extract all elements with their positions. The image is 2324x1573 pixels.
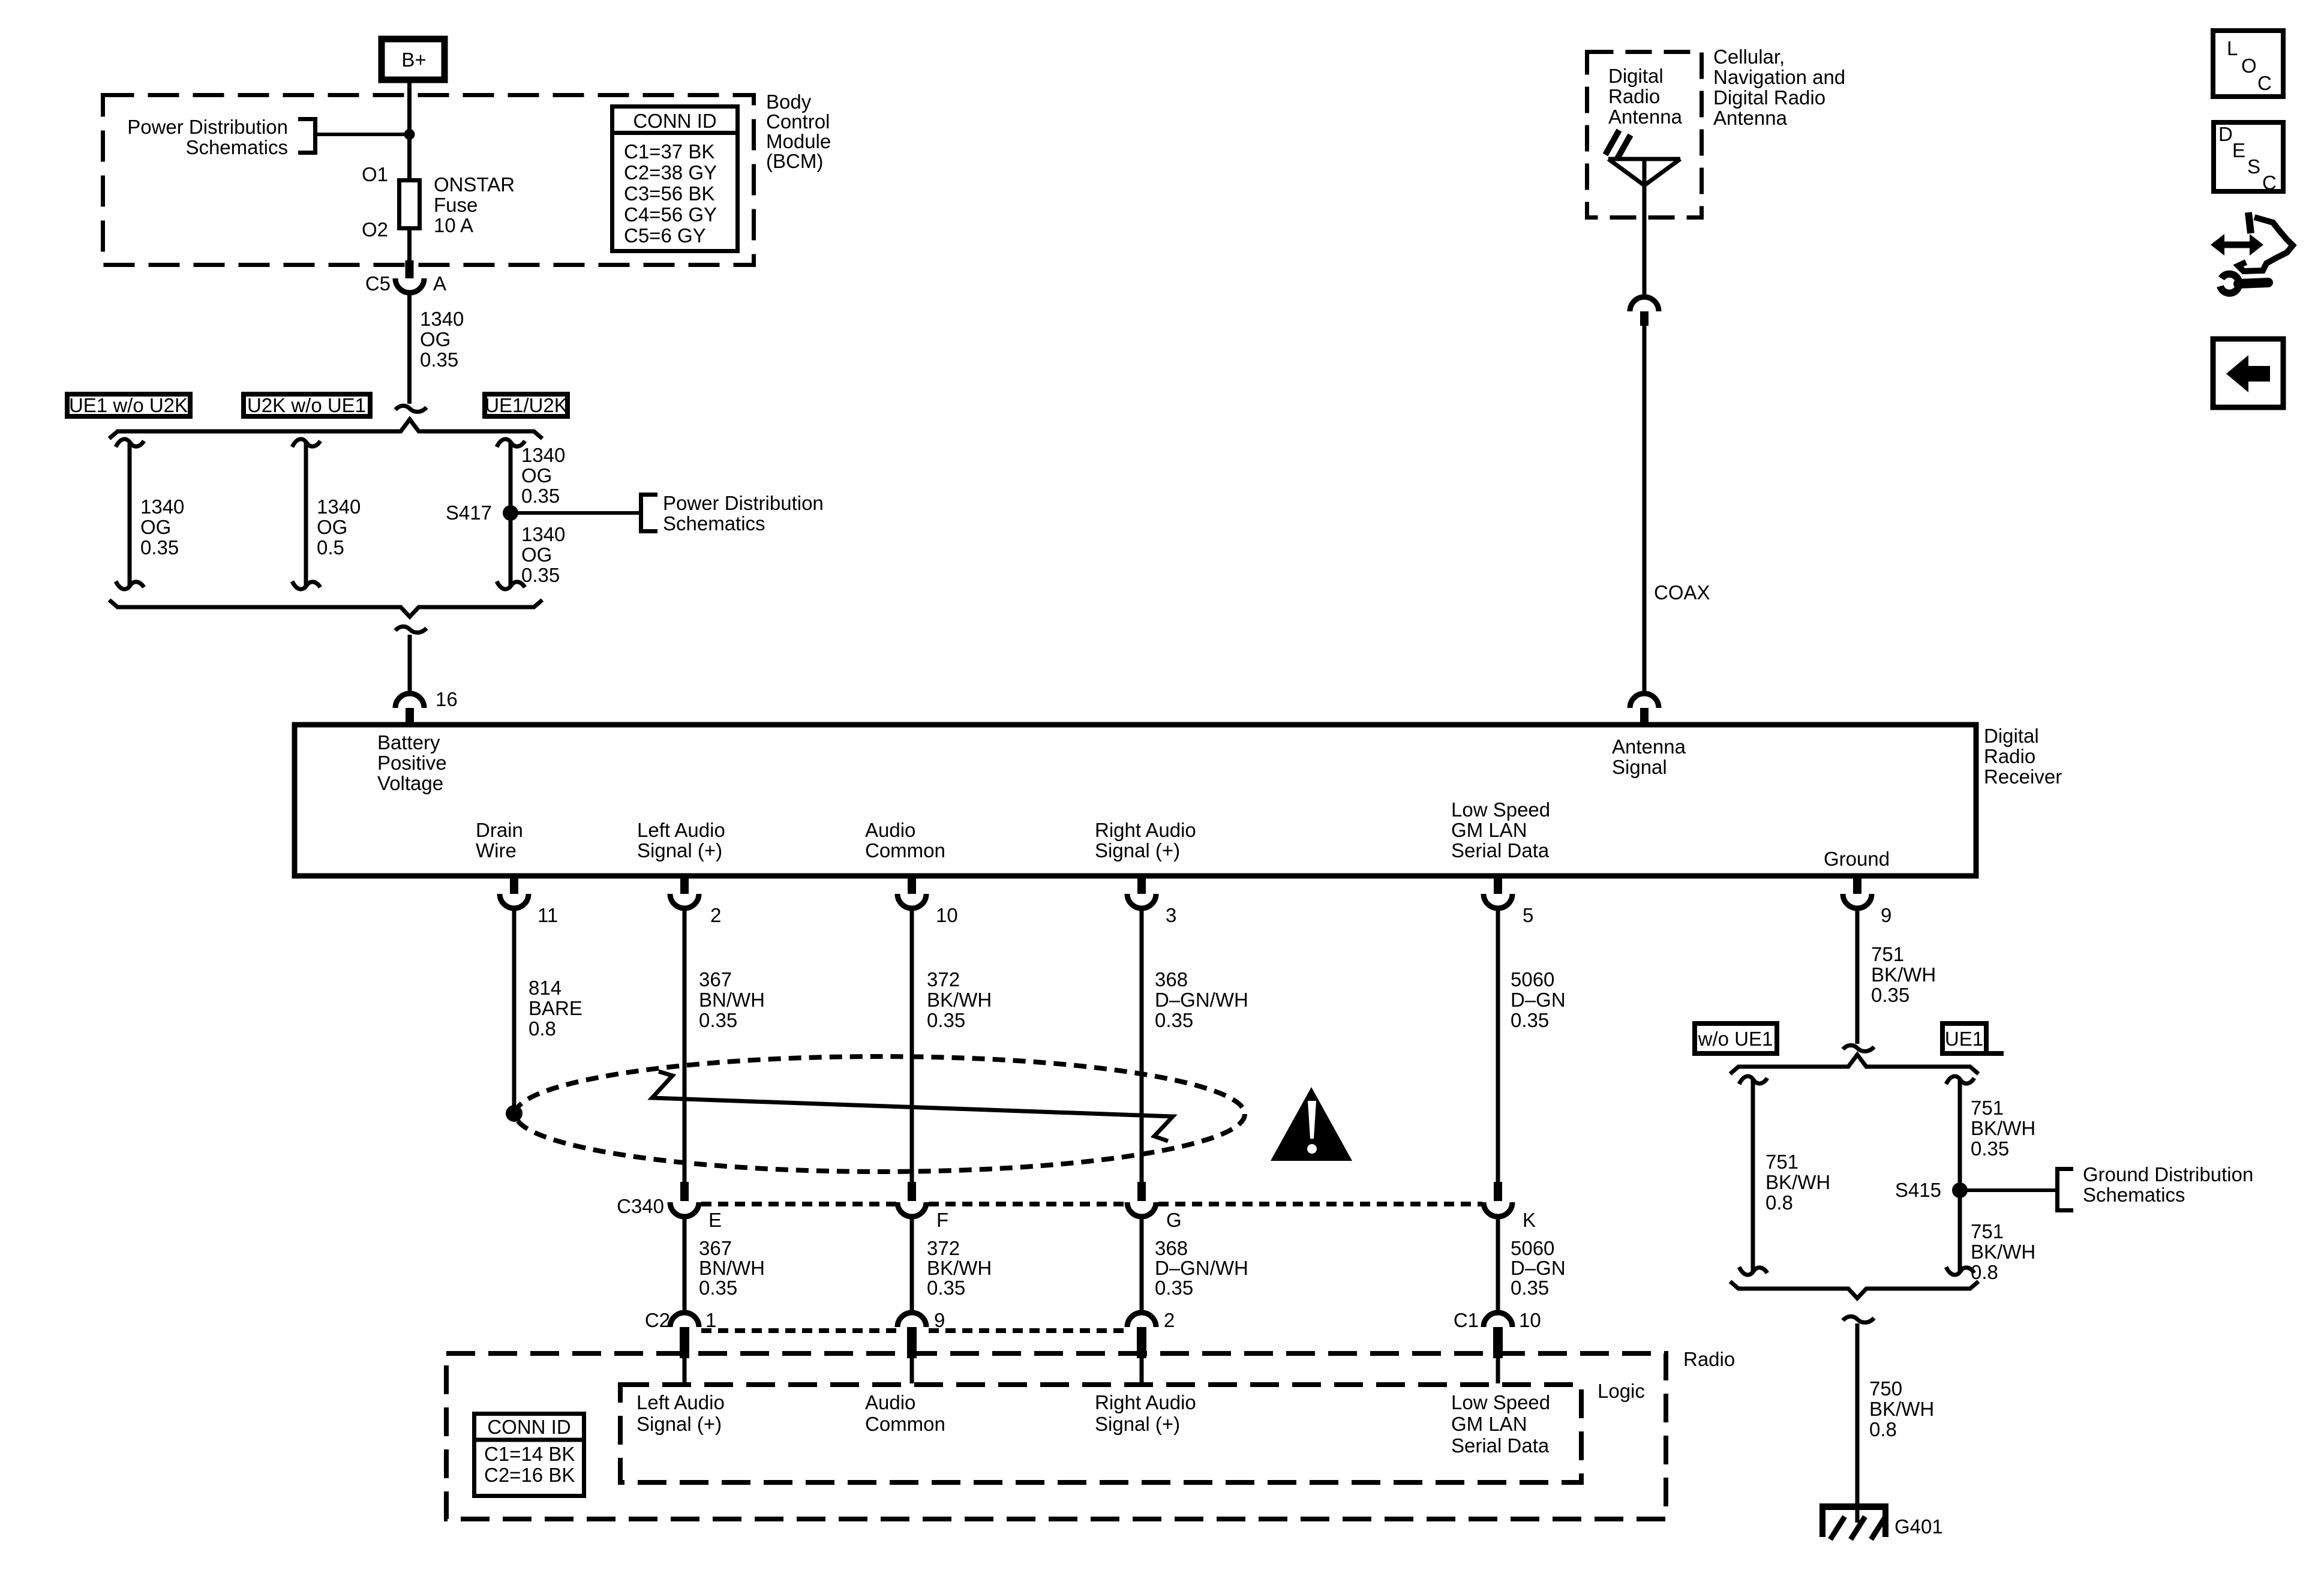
svg-text:G401: G401 (1894, 1515, 1943, 1538)
branch U2K w/o UE1 wire (292, 439, 361, 589)
svg-text:Right Audio: Right Audio (1095, 819, 1196, 841)
svg-text:U2K w/o UE1: U2K w/o UE1 (247, 394, 366, 416)
svg-text:Antenna: Antenna (1608, 106, 1683, 128)
svg-text:0.35: 0.35 (521, 564, 560, 586)
svg-text:Signal (+): Signal (+) (1095, 1413, 1180, 1435)
connector C340 pin K (1484, 1182, 1536, 1231)
svg-text:Radio: Radio (1608, 85, 1660, 107)
svg-text:368: 368 (1155, 1237, 1188, 1259)
C2 connector dashed line (701, 1328, 1126, 1333)
connector pin 16 (395, 688, 458, 725)
wire C5 to brace (407, 293, 412, 404)
svg-text:Voltage: Voltage (377, 772, 443, 794)
svg-text:D: D (2218, 123, 2233, 145)
svg-text:751: 751 (1765, 1151, 1798, 1173)
svg-text:GM LAN: GM LAN (1451, 819, 1527, 841)
svg-text:BK/WH: BK/WH (1871, 963, 1936, 986)
svg-text:C: C (2257, 72, 2272, 94)
svg-text:D–GN: D–GN (1511, 989, 1566, 1011)
svg-text:BK/WH: BK/WH (1971, 1117, 2035, 1139)
radio pin label Left Audio Signal (+) (636, 1391, 725, 1435)
svg-text:0.35: 0.35 (521, 485, 560, 507)
svg-text:Antenna: Antenna (1713, 107, 1788, 129)
svg-text:B+: B+ (401, 49, 426, 71)
label Digital Radio Antenna (1608, 65, 1683, 128)
wire 372 receiver to C340 (912, 908, 992, 1183)
svg-text:C340: C340 (617, 1195, 664, 1217)
option box w/o UE1 (1695, 1023, 1777, 1053)
svg-text:Low Speed: Low Speed (1451, 798, 1550, 821)
connector C340 pin F (897, 1182, 948, 1231)
option box UE1 w/o U2K (67, 394, 190, 416)
svg-text:Battery: Battery (377, 731, 440, 754)
svg-text:1340: 1340 (521, 523, 565, 545)
svg-text:Receiver: Receiver (1984, 766, 2062, 788)
svg-text:OG: OG (420, 328, 451, 350)
connector C340 pin G (1127, 1182, 1182, 1231)
svg-text:0.35: 0.35 (1155, 1009, 1193, 1031)
svg-text:0.35: 0.35 (699, 1009, 737, 1031)
svg-text:BN/WH: BN/WH (699, 989, 765, 1011)
wire 367 receiver to C340 (684, 908, 765, 1183)
svg-text:Ground Distribution: Ground Distribution (2083, 1163, 2253, 1185)
svg-text:372: 372 (927, 1237, 960, 1259)
splice S415 (1895, 1179, 1968, 1201)
svg-text:BARE: BARE (529, 997, 582, 1019)
svg-text:C4=56 GY: C4=56 GY (624, 203, 717, 226)
branch w/o UE1 ground wire (1739, 1076, 1830, 1275)
svg-text:ONSTAR: ONSTAR (434, 173, 515, 196)
svg-text:D–GN/WH: D–GN/WH (1155, 1257, 1248, 1279)
svg-text:C2: C2 (645, 1309, 670, 1331)
icon LOC box (2213, 31, 2283, 97)
svg-text:10 A: 10 A (434, 214, 473, 236)
svg-text:3: 3 (1166, 904, 1176, 926)
branch UE1 ground wire with S415 (1946, 1076, 2035, 1283)
wire 751 pin 9 down (1857, 908, 1936, 1044)
svg-text:751: 751 (1871, 943, 1904, 965)
svg-text:F: F (936, 1209, 948, 1231)
svg-text:Drain: Drain (476, 819, 523, 841)
svg-text:Signal (+): Signal (+) (1095, 839, 1180, 861)
branch UE1/U2K wire with S417 (497, 439, 565, 589)
ground G401 (1819, 1503, 1943, 1539)
warning triangle (1271, 1087, 1352, 1161)
svg-text:UE1 w/o U2K: UE1 w/o U2K (69, 394, 188, 416)
svg-text:0.8: 0.8 (529, 1017, 556, 1040)
svg-text:Fuse: Fuse (434, 194, 478, 216)
svg-text:Digital: Digital (1608, 65, 1664, 87)
svg-text:Low Speed: Low Speed (1451, 1391, 1550, 1413)
hook crossover (1843, 1045, 1874, 1051)
svg-text:COAX: COAX (1654, 581, 1710, 604)
svg-text:16: 16 (436, 688, 458, 710)
svg-text:Radio: Radio (1683, 1348, 1735, 1370)
svg-text:751: 751 (1971, 1097, 2004, 1119)
label Digital Radio Receiver (1984, 725, 2062, 788)
brace top (split) (109, 419, 542, 439)
svg-text:w/o UE1: w/o UE1 (1698, 1028, 1773, 1050)
shield conductor zigzag (652, 1071, 1173, 1141)
svg-text:814: 814 (529, 977, 562, 999)
svg-text:11: 11 (538, 904, 558, 926)
wire 372 C340 to radio (912, 1217, 992, 1313)
svg-text:0.35: 0.35 (927, 1277, 965, 1299)
svg-text:1340: 1340 (420, 308, 464, 330)
svg-text:368: 368 (1155, 968, 1188, 990)
svg-text:BN/WH: BN/WH (699, 1257, 765, 1279)
ground brace bottom (merge) (1730, 1281, 1978, 1298)
svg-text:L: L (2227, 37, 2238, 59)
svg-text:OG: OG (521, 544, 552, 566)
wire 5060 receiver to C340 (1498, 908, 1566, 1183)
svg-text:Radio: Radio (1984, 745, 2035, 767)
svg-text:Navigation and: Navigation and (1713, 66, 1845, 88)
svg-text:Signal: Signal (1612, 756, 1667, 778)
svg-text:Digital: Digital (1984, 725, 2039, 747)
svg-text:Schematics: Schematics (185, 136, 288, 158)
svg-text:0.35: 0.35 (1511, 1277, 1549, 1299)
svg-text:A: A (433, 272, 446, 295)
svg-text:Module: Module (766, 130, 831, 152)
hook crossover (395, 626, 427, 632)
svg-text:367: 367 (699, 968, 732, 990)
svg-text:9: 9 (1881, 904, 1891, 926)
Radio dashed box (446, 1348, 1735, 1519)
icon back arrow box (2213, 339, 2283, 407)
radio pin label Low Speed GM LAN Serial Data (1451, 1391, 1550, 1457)
svg-text:1340: 1340 (317, 496, 361, 518)
branch UE1 w/o U2K wire (116, 439, 184, 589)
svg-text:C3=56 BK: C3=56 BK (624, 182, 714, 205)
svg-text:OG: OG (317, 516, 347, 538)
svg-text:0.35: 0.35 (699, 1277, 737, 1299)
svg-text:CONN ID: CONN ID (633, 110, 716, 132)
splice S417 (446, 502, 518, 524)
svg-text:0.35: 0.35 (420, 349, 458, 371)
svg-text:Control: Control (766, 110, 830, 133)
svg-text:5060: 5060 (1511, 968, 1554, 990)
svg-text:10: 10 (936, 904, 958, 926)
svg-text:C5=6 GY: C5=6 GY (624, 224, 706, 247)
svg-text:0.5: 0.5 (317, 536, 344, 559)
option box UE1 (1942, 1023, 2004, 1053)
BCM dashed box (103, 95, 754, 265)
svg-text:BK/WH: BK/WH (1765, 1171, 1830, 1193)
svg-text:UE1/U2K: UE1/U2K (485, 394, 568, 416)
svg-text:Common: Common (865, 839, 945, 861)
junction dot (404, 129, 415, 140)
svg-text:Audio: Audio (865, 1391, 915, 1413)
svg-text:Right Audio: Right Audio (1095, 1391, 1196, 1413)
antenna symbol (1608, 159, 1680, 297)
svg-text:0.35: 0.35 (1511, 1009, 1549, 1031)
connector C1 pin 10 (1454, 1309, 1541, 1383)
svg-text:2: 2 (710, 904, 721, 926)
svg-text:G: G (1166, 1209, 1182, 1231)
svg-text:Signal (+): Signal (+) (636, 1413, 722, 1435)
svg-text:CONN ID: CONN ID (487, 1416, 571, 1438)
Digital Radio Receiver box (295, 725, 1976, 876)
connector C340 pin E (617, 1182, 722, 1231)
svg-text:2: 2 (1164, 1309, 1175, 1331)
wire S415 to schematics bracket (1966, 1163, 2253, 1211)
connector C2 pin 1 (645, 1309, 717, 1383)
radio pin label Audio Common (865, 1391, 945, 1435)
svg-text:Logic: Logic (1598, 1380, 1645, 1402)
connector C5 pin A (365, 272, 446, 295)
svg-text:372: 372 (927, 968, 960, 990)
svg-text:Serial Data: Serial Data (1451, 1434, 1550, 1457)
svg-text:1340: 1340 (140, 496, 184, 518)
wire B+ to fuse (407, 80, 412, 178)
svg-text:BK/WH: BK/WH (927, 989, 992, 1011)
drain junction dot (506, 1105, 523, 1122)
svg-text:0.35: 0.35 (140, 536, 179, 559)
wire bracket to junction (315, 133, 409, 136)
power symbol B+ (382, 39, 445, 80)
svg-text:Power Distribution: Power Distribution (663, 492, 824, 514)
ground brace top (split) (1730, 1055, 1978, 1074)
svg-text:Cellular,: Cellular, (1713, 46, 1785, 68)
CONN ID table (BCM) (610, 107, 740, 251)
svg-text:1340: 1340 (521, 444, 565, 466)
wire label 1340 OG 0.35 (420, 308, 464, 371)
svg-text:0.35: 0.35 (1971, 1137, 2009, 1160)
svg-text:C1: C1 (1454, 1309, 1479, 1331)
svg-text:0.35: 0.35 (927, 1009, 965, 1031)
option box U2K w/o UE1 (244, 394, 370, 416)
svg-text:367: 367 (699, 1237, 732, 1259)
wire to receiver pin 16 (408, 635, 412, 694)
svg-text:O1: O1 (362, 163, 388, 185)
wire 367 C340 to radio (684, 1217, 765, 1313)
svg-text:C: C (2262, 172, 2277, 194)
svg-text:0.35: 0.35 (1155, 1277, 1193, 1299)
wire 750 to G401 (1857, 1323, 1934, 1523)
svg-text:O: O (2241, 55, 2257, 77)
shield ellipse (dashed) (515, 1056, 1245, 1172)
svg-text:5: 5 (1523, 904, 1533, 926)
connector pin 9 (1843, 876, 1891, 926)
svg-text:(BCM): (BCM) (766, 150, 823, 172)
svg-text:5060: 5060 (1511, 1237, 1554, 1259)
connector pin 11 (500, 876, 558, 926)
svg-text:BK/WH: BK/WH (1869, 1398, 1934, 1420)
connector pin 10 (897, 876, 958, 926)
svg-text:Wire: Wire (476, 839, 517, 861)
svg-text:9: 9 (934, 1309, 945, 1331)
svg-text:C1=14 BK: C1=14 BK (484, 1443, 575, 1465)
svg-text:0.8: 0.8 (1869, 1418, 1897, 1440)
svg-text:S417: S417 (446, 502, 492, 524)
hook crossover (1843, 1316, 1874, 1322)
svg-text:Common: Common (865, 1413, 945, 1435)
fuse ONSTAR 10A (362, 163, 515, 241)
svg-text:1: 1 (705, 1309, 716, 1331)
svg-text:C2=16 BK: C2=16 BK (484, 1464, 575, 1486)
svg-text:O2: O2 (362, 218, 388, 241)
svg-text:Left Audio: Left Audio (637, 819, 725, 841)
connector pin 3 (1127, 876, 1176, 926)
svg-text:0.8: 0.8 (1765, 1191, 1793, 1214)
label Cellular, Navigation and Digital Radio Antenna (1713, 46, 1845, 129)
connector C2 pin 9 (897, 1309, 945, 1383)
svg-text:BK/WH: BK/WH (1971, 1241, 2035, 1263)
C340 connector dashed line (701, 1202, 1482, 1206)
svg-text:D–GN: D–GN (1511, 1257, 1566, 1279)
svg-text:E: E (2232, 139, 2245, 161)
wire S417 to schematics bracket (517, 492, 824, 535)
svg-text:Ground: Ground (1824, 848, 1890, 870)
label Power Distribution Schematics (BCM) (127, 116, 315, 158)
svg-text:C1=37 BK: C1=37 BK (624, 140, 714, 163)
svg-text:Digital Radio: Digital Radio (1713, 86, 1825, 109)
svg-text:Left Audio: Left Audio (636, 1391, 725, 1413)
svg-text:UE1: UE1 (1945, 1028, 1983, 1050)
wire fuse to connector C5 (407, 228, 412, 262)
svg-text:E: E (708, 1209, 722, 1231)
connector pin 5 (1484, 876, 1533, 926)
CONN ID table (Radio) (472, 1414, 586, 1496)
icon adjust hand with arrow and wrench (2211, 212, 2293, 293)
drain wire 814 (514, 908, 582, 1107)
brace bottom (merge) (109, 600, 542, 617)
svg-text:OG: OG (140, 516, 171, 538)
connector C2 pin 2 (1127, 1309, 1175, 1383)
icon DESC box (2214, 122, 2283, 194)
Logic dashed box (620, 1380, 1645, 1482)
svg-text:Serial Data: Serial Data (1451, 839, 1550, 861)
wire 5060 C340 to radio (1498, 1217, 1566, 1313)
svg-text:Audio: Audio (865, 819, 915, 841)
svg-text:Positive: Positive (377, 752, 447, 774)
antenna coax connector (1630, 297, 1659, 326)
coax wire (1644, 326, 1710, 694)
svg-text:10: 10 (1519, 1309, 1541, 1331)
svg-text:Body: Body (766, 91, 812, 113)
svg-text:OG: OG (521, 464, 552, 487)
antenna dashed box (1587, 52, 1702, 218)
svg-text:C5: C5 (365, 272, 391, 295)
svg-text:Schematics: Schematics (2083, 1184, 2185, 1206)
svg-text:BK/WH: BK/WH (927, 1257, 992, 1279)
svg-text:0.35: 0.35 (1871, 984, 1909, 1006)
connector antenna signal pin (1630, 694, 1659, 725)
radio pin label Right Audio Signal (+) (1095, 1391, 1196, 1435)
svg-text:C2=38 GY: C2=38 GY (624, 161, 717, 184)
svg-text:Signal (+): Signal (+) (637, 839, 722, 861)
hook crossover (395, 406, 427, 412)
svg-text:751: 751 (1971, 1220, 2004, 1242)
svg-text:D–GN/WH: D–GN/WH (1155, 989, 1248, 1011)
label Body Control Module (BCM) (766, 91, 831, 172)
connector pin 2 (670, 876, 721, 926)
svg-text:GM LAN: GM LAN (1451, 1413, 1527, 1435)
svg-text:750: 750 (1869, 1377, 1902, 1400)
option box UE1/U2K (485, 394, 568, 416)
antenna signal slashes (1605, 130, 1631, 160)
svg-text:Power Distribution: Power Distribution (127, 116, 288, 138)
svg-text:S415: S415 (1895, 1179, 1941, 1201)
wire 368 C340 to radio (1142, 1217, 1248, 1313)
svg-text:0.8: 0.8 (1971, 1261, 1998, 1283)
svg-text:Schematics: Schematics (663, 512, 765, 535)
svg-text:S: S (2247, 155, 2260, 178)
svg-text:Antenna: Antenna (1612, 736, 1686, 758)
svg-text:K: K (1523, 1209, 1536, 1231)
wire 368 receiver to C340 (1142, 908, 1248, 1183)
